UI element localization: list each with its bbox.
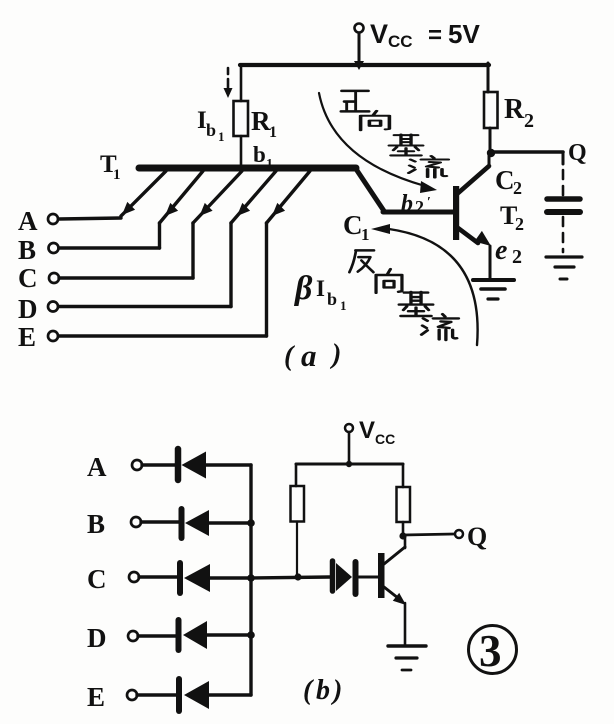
svg-text:D: D <box>87 623 107 653</box>
svg-text:β: β <box>293 270 313 307</box>
svg-text:Q: Q <box>568 140 587 166</box>
svg-text:′: ′ <box>427 195 431 210</box>
svg-text:CC: CC <box>375 431 395 447</box>
svg-text:D: D <box>18 294 38 324</box>
svg-text:B: B <box>18 235 36 265</box>
svg-text:1: 1 <box>269 124 277 141</box>
svg-text:A: A <box>18 206 38 236</box>
svg-text:b: b <box>327 289 337 309</box>
svg-text:2: 2 <box>415 197 424 217</box>
svg-text:=: = <box>428 22 442 49</box>
svg-text:C: C <box>87 564 107 594</box>
svg-text:Q: Q <box>467 522 487 551</box>
svg-text:e: e <box>495 235 507 266</box>
svg-text:1: 1 <box>266 157 273 172</box>
svg-text:b: b <box>401 191 413 217</box>
svg-text:A: A <box>87 452 107 482</box>
svg-text:V: V <box>370 19 388 49</box>
svg-text:V: V <box>359 417 375 444</box>
svg-text:C: C <box>18 263 38 293</box>
svg-text:I: I <box>316 276 325 301</box>
svg-text:R: R <box>251 106 271 136</box>
svg-text:C: C <box>495 165 515 195</box>
svg-text:1: 1 <box>340 298 347 313</box>
svg-text:C: C <box>343 210 363 240</box>
svg-text:E: E <box>87 682 105 712</box>
svg-text:5V: 5V <box>448 19 480 49</box>
svg-text:a: a <box>301 338 317 373</box>
svg-text:1: 1 <box>218 129 225 144</box>
svg-text:1: 1 <box>361 225 370 244</box>
svg-text:b: b <box>316 675 330 706</box>
svg-text:1: 1 <box>113 167 121 183</box>
svg-text:2: 2 <box>513 178 522 198</box>
svg-text:b: b <box>253 142 266 167</box>
svg-text:3: 3 <box>479 626 502 676</box>
svg-text:R: R <box>504 94 525 125</box>
svg-text:B: B <box>87 509 105 539</box>
svg-text:2: 2 <box>515 214 524 234</box>
svg-text:2: 2 <box>512 246 522 268</box>
svg-text:CC: CC <box>388 32 413 51</box>
svg-text:(: ( <box>284 341 295 372</box>
svg-text:2: 2 <box>524 110 534 132</box>
svg-text:b: b <box>206 120 216 140</box>
svg-text:): ) <box>329 339 341 370</box>
svg-text:(: ( <box>303 675 314 706</box>
svg-text:): ) <box>330 675 342 706</box>
svg-text:E: E <box>18 322 36 352</box>
